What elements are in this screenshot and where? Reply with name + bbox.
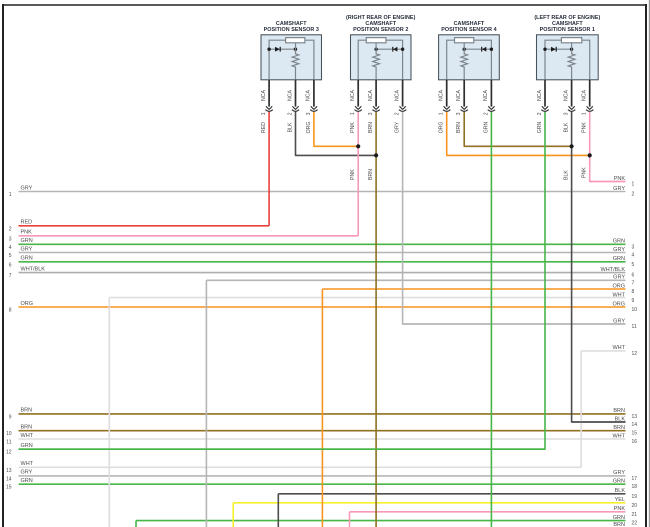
sensor 3 internal top wire <box>269 40 314 80</box>
svg-text:4: 4 <box>632 253 635 259</box>
svg-text:ORG: ORG <box>306 122 312 134</box>
svg-text:GRN: GRN <box>21 478 33 484</box>
page border right <box>645 4 647 527</box>
wire BLK wire sensor3 pin2 <box>296 112 377 156</box>
connector symbol at pin <box>399 106 406 111</box>
svg-text:WHT/BLK: WHT/BLK <box>21 266 46 272</box>
svg-text:1: 1 <box>582 112 588 115</box>
sensor 1 pin stub <box>589 80 591 107</box>
diode D3 <box>275 47 280 52</box>
sensor 1 pin stub <box>544 80 546 107</box>
junction BLK to BRN <box>374 153 378 157</box>
wire GRY R11 horizontal <box>403 323 626 325</box>
svg-text:6: 6 <box>632 273 635 279</box>
wire BRN L10-R15 <box>19 430 626 432</box>
sensor 2 diode branch wire <box>376 48 403 50</box>
svg-text:2: 2 <box>483 112 489 115</box>
svg-text:10: 10 <box>6 431 12 437</box>
wire WHT L11-R16 <box>19 438 626 440</box>
wire GRN L15-R18 <box>19 483 626 485</box>
svg-text:3: 3 <box>306 112 312 115</box>
junction sensor 4 diode anode <box>490 48 493 51</box>
svg-text:15: 15 <box>6 485 12 491</box>
wire BLK R14 horizontal <box>572 421 626 423</box>
svg-text:22: 22 <box>632 521 638 527</box>
junction BRN to BLK <box>570 144 574 148</box>
svg-text:3: 3 <box>368 112 374 115</box>
diode D4 <box>482 47 487 52</box>
wire GRN L4-R3 <box>19 243 626 245</box>
page border left <box>2 4 4 527</box>
svg-text:5: 5 <box>9 253 12 259</box>
svg-text:PNK: PNK <box>350 169 356 180</box>
wire WHT R12-L13 vertical <box>580 351 582 467</box>
svg-text:3: 3 <box>456 112 462 115</box>
sensor 4 pin stub <box>490 80 492 107</box>
wire ORG R8 vertical to bottom <box>321 289 323 527</box>
svg-text:GRY: GRY <box>21 246 33 252</box>
svg-text:POSITION SENSOR 2: POSITION SENSOR 2 <box>353 27 408 33</box>
wire ORG L8-R10 <box>19 306 626 308</box>
wire GRN L12 horizontal <box>19 448 546 450</box>
junction sensor 1 diode anode <box>543 48 546 51</box>
svg-text:NCA: NCA <box>287 89 293 100</box>
sensor 1 internal top wire <box>545 40 590 80</box>
svg-text:15: 15 <box>632 431 638 437</box>
svg-text:GRY: GRY <box>21 185 33 191</box>
svg-text:NCA: NCA <box>306 89 312 100</box>
svg-text:NCA: NCA <box>350 89 356 100</box>
svg-text:(RIGHT REAR OF ENGINE): (RIGHT REAR OF ENGINE) <box>346 15 416 21</box>
svg-text:1: 1 <box>261 112 267 115</box>
svg-text:3: 3 <box>632 244 635 250</box>
diode D2 <box>393 47 398 52</box>
svg-text:2: 2 <box>395 112 401 115</box>
connector symbol at pin <box>586 106 593 111</box>
svg-text:GRN: GRN <box>537 121 543 133</box>
svg-text:WHT: WHT <box>21 433 34 439</box>
svg-text:2: 2 <box>537 112 543 115</box>
svg-text:2: 2 <box>632 192 635 198</box>
svg-text:13: 13 <box>6 468 12 474</box>
svg-text:GRN: GRN <box>21 256 33 262</box>
svg-text:NCA: NCA <box>563 89 569 100</box>
wire GRY L1-R2 <box>19 191 626 193</box>
svg-text:17: 17 <box>632 476 638 482</box>
sensor 4 pin stub <box>463 80 465 107</box>
wire YEL R20 horizontal <box>233 502 625 504</box>
junction sensor 3 center node <box>294 48 297 51</box>
connector symbol at pin <box>292 106 299 111</box>
sensor 3 pin stub <box>295 80 297 107</box>
svg-text:6: 6 <box>9 262 12 268</box>
svg-text:11: 11 <box>6 440 11 446</box>
resistor R2a (horizontal) <box>366 38 386 43</box>
svg-text:3: 3 <box>9 236 12 242</box>
svg-text:BRN: BRN <box>368 122 374 133</box>
wire WHT R12 horizontal <box>581 350 625 352</box>
junction sensor 3 diode anode <box>267 48 270 51</box>
wire ORG wire sensor4 pin1 <box>447 112 590 156</box>
wire RED L2 horizontal <box>19 225 270 227</box>
op-amp/sensor box: camshaft position sensor 3 <box>261 35 322 80</box>
wire YEL R20 vertical to bottom <box>232 503 234 527</box>
svg-text:BRN: BRN <box>613 522 625 527</box>
svg-text:13: 13 <box>632 414 638 420</box>
svg-text:RED: RED <box>261 122 267 133</box>
svg-text:PNK: PNK <box>21 230 33 236</box>
wire WHT/BLK L7-R6 <box>19 272 626 274</box>
sensor 3 pin stub <box>268 80 270 107</box>
sensor 2 internal top wire <box>358 40 402 80</box>
wire PNK R21 horizontal <box>350 511 626 513</box>
connector symbol at pin <box>310 106 317 111</box>
svg-text:POSITION SENSOR 4: POSITION SENSOR 4 <box>441 27 496 33</box>
svg-text:BRN: BRN <box>21 408 33 414</box>
svg-text:12: 12 <box>6 450 12 456</box>
svg-text:4: 4 <box>9 245 12 251</box>
resistor R2b (vertical zigzag) <box>373 43 380 80</box>
junction ORG to PNK right <box>588 153 592 157</box>
wire GRN wire sensor4 pin2 <box>490 112 492 527</box>
svg-text:POSITION SENSOR 1: POSITION SENSOR 1 <box>540 27 595 33</box>
svg-text:NCA: NCA <box>394 89 400 100</box>
svg-text:GRN: GRN <box>21 443 33 449</box>
wire PNK R1 horizontal <box>590 181 626 183</box>
svg-text:NCA: NCA <box>439 89 445 100</box>
connector symbol at pin <box>488 106 495 111</box>
svg-text:NCA: NCA <box>368 89 374 100</box>
page edge strip <box>648 0 650 527</box>
wire WHT R9 horizontal <box>109 297 625 299</box>
svg-text:GRY: GRY <box>395 121 401 133</box>
svg-text:NCA: NCA <box>483 89 489 100</box>
svg-text:16: 16 <box>632 439 638 445</box>
sensor 4 internal top wire <box>447 40 492 80</box>
svg-text:1: 1 <box>350 112 356 115</box>
svg-text:BRN: BRN <box>21 425 33 431</box>
wire PNK R21 vertical to bottom <box>349 512 351 527</box>
svg-text:NCA: NCA <box>537 89 543 100</box>
svg-text:18: 18 <box>632 484 638 490</box>
op-amp/sensor box: camshaft position sensor 4 <box>439 35 500 80</box>
wire BLK wire sensor1 pin3 <box>572 112 626 423</box>
junction sensor 2 center node <box>374 48 377 51</box>
resistor R3a (horizontal) <box>286 38 305 43</box>
svg-text:PNK: PNK <box>350 122 356 133</box>
svg-text:ORG: ORG <box>439 122 445 134</box>
svg-text:8: 8 <box>9 308 12 314</box>
wire BLK R19 horizontal <box>278 493 625 495</box>
wire GRN wire sensor1 pin2 <box>19 112 546 450</box>
svg-text:1: 1 <box>439 112 445 115</box>
svg-text:1: 1 <box>9 192 12 198</box>
wire GRN R22 horizontal <box>136 520 626 522</box>
connector symbol at pin <box>372 106 379 111</box>
junction ORG to PNK <box>356 144 360 148</box>
wire BRN wire sensor4 pin3 <box>464 112 571 147</box>
svg-text:BRN: BRN <box>368 169 374 180</box>
svg-text:2: 2 <box>9 226 12 232</box>
connector symbol at pin <box>568 106 575 111</box>
wire GRN L6-R5 <box>19 261 626 263</box>
svg-text:3: 3 <box>564 112 570 115</box>
sensor 2 pin stub <box>357 80 359 107</box>
svg-text:2: 2 <box>288 112 294 115</box>
connector symbol at pin <box>443 106 450 111</box>
wire PNK L3 horizontal <box>19 235 359 237</box>
wire GRY R7 horizontal <box>206 279 625 281</box>
wire BRN L9-R13 <box>19 413 626 415</box>
wire BLK R19 vertical to bottom <box>277 494 279 527</box>
wire ORG R8 horizontal <box>322 288 625 290</box>
wire GRY wire sensor2 pin2 <box>403 112 626 325</box>
svg-text:RED: RED <box>21 220 33 226</box>
svg-text:PNK: PNK <box>582 167 588 178</box>
svg-text:14: 14 <box>6 476 12 482</box>
svg-text:BRN: BRN <box>456 122 462 133</box>
wire PNK wire sensor1 pin1 <box>590 112 626 182</box>
svg-text:NCA: NCA <box>582 89 588 100</box>
junction sensor 1 center node <box>570 48 573 51</box>
diode D1 <box>551 47 556 52</box>
resistor R3b (vertical zigzag) <box>292 43 299 80</box>
connector symbol at pin <box>265 106 272 111</box>
wire GRY R7 vertical to bottom <box>205 280 207 527</box>
svg-text:5: 5 <box>632 262 635 268</box>
sensor 4 diode branch wire <box>464 48 491 50</box>
resistor R4b (vertical zigzag) <box>461 43 468 80</box>
svg-text:12: 12 <box>632 351 638 357</box>
wire GRN R22 vertical stub <box>135 521 137 527</box>
sensor 2 pin stub <box>402 80 404 107</box>
wire GRY L5-R4 <box>19 252 626 254</box>
svg-text:8: 8 <box>632 289 635 295</box>
svg-text:14: 14 <box>632 422 638 428</box>
svg-text:21: 21 <box>632 512 638 518</box>
sensor 1 diode branch wire <box>545 48 572 50</box>
svg-text:ORG: ORG <box>21 301 34 307</box>
svg-text:9: 9 <box>632 298 635 304</box>
svg-text:BLK: BLK <box>288 122 294 132</box>
svg-text:GRN: GRN <box>483 121 489 133</box>
junction sensor 4 center node <box>463 48 466 51</box>
wire RED wire sensor3 pin1 <box>268 112 270 226</box>
svg-text:NCA: NCA <box>456 89 462 100</box>
sensor 2 pin stub <box>375 80 377 107</box>
connector symbol at pin <box>541 106 548 111</box>
resistor R1a (horizontal) <box>561 38 581 43</box>
op-amp/sensor box: camshaft position sensor 2 <box>351 35 412 80</box>
svg-text:(LEFT REAR OF ENGINE): (LEFT REAR OF ENGINE) <box>534 15 600 21</box>
wire BRN wire sensor2 pin3 <box>375 112 377 527</box>
svg-text:1: 1 <box>632 182 635 188</box>
connector symbol at pin <box>461 106 468 111</box>
resistor R4a (horizontal) <box>455 38 474 43</box>
svg-text:11: 11 <box>632 324 637 330</box>
sensor 3 diode branch wire <box>269 48 295 50</box>
sensor 4 pin stub <box>446 80 448 107</box>
svg-text:GRY: GRY <box>21 470 33 476</box>
svg-text:7: 7 <box>9 273 12 279</box>
svg-text:19: 19 <box>632 494 638 500</box>
sensor 1 pin stub <box>571 80 573 107</box>
svg-text:10: 10 <box>632 307 638 313</box>
svg-text:BLK: BLK <box>564 170 570 180</box>
svg-text:BLK: BLK <box>564 122 570 132</box>
svg-text:20: 20 <box>632 503 638 509</box>
sensor 3 pin stub <box>313 80 315 107</box>
junction sensor 2 diode anode <box>401 48 404 51</box>
svg-text:GRN: GRN <box>21 238 33 244</box>
wire PNK wire sensor2 pin1 <box>357 112 359 236</box>
wire WHT L13 horizontal <box>19 466 582 468</box>
svg-text:PNK: PNK <box>582 122 588 133</box>
page border top <box>2 4 647 6</box>
svg-text:WHT: WHT <box>21 461 34 467</box>
wire GRY L14-R17 <box>19 475 626 477</box>
wire ORG wire sensor3 pin3 <box>314 112 358 147</box>
op-amp/sensor box: camshaft position sensor 1 <box>537 35 599 80</box>
resistor R1b (vertical zigzag) <box>568 43 575 80</box>
svg-text:7: 7 <box>632 280 635 286</box>
svg-text:9: 9 <box>9 414 12 420</box>
connector symbol at pin <box>355 106 362 111</box>
svg-text:POSITION SENSOR 3: POSITION SENSOR 3 <box>264 27 319 33</box>
svg-text:NCA: NCA <box>261 89 267 100</box>
wire WHT vertical to bottom <box>108 298 110 527</box>
